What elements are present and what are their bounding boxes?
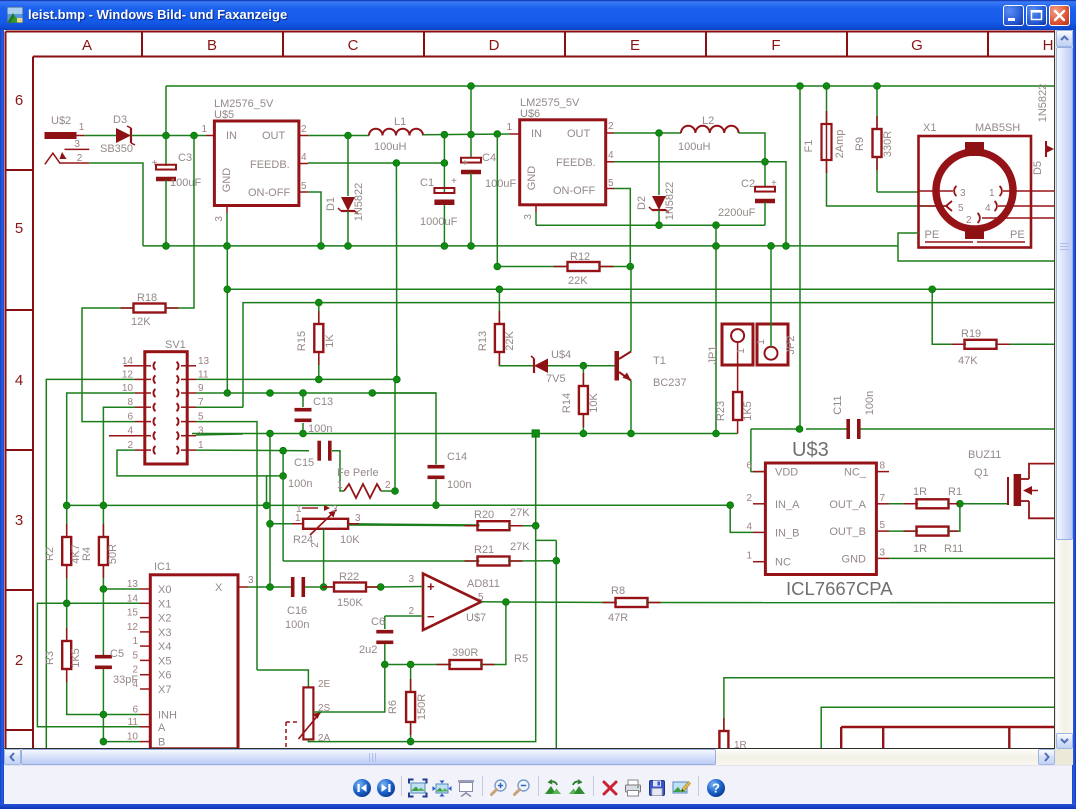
- svg-text:VDD: VDD: [775, 467, 798, 479]
- svg-text:3: 3: [74, 139, 80, 150]
- resistor R20 27K: [348, 507, 539, 530]
- svg-text:C14: C14: [447, 451, 467, 463]
- svg-text:27K: 27K: [510, 507, 530, 519]
- svg-text:R23: R23: [715, 401, 727, 421]
- svg-text:C4: C4: [482, 152, 496, 164]
- svg-text:GND: GND: [526, 166, 538, 191]
- svg-text:15: 15: [127, 608, 139, 619]
- svg-text:5: 5: [958, 203, 964, 214]
- frame column letters: [82, 37, 1053, 54]
- wire SV1 pin5 to potentiometer feed column: [196, 422, 257, 670]
- wire U$3 GND out: [889, 557, 1055, 559]
- svg-text:D1: D1: [325, 197, 337, 211]
- wire IC1 X output to C16: [248, 584, 291, 591]
- svg-text:Q1: Q1: [974, 467, 989, 479]
- svg-text:R5: R5: [514, 653, 528, 665]
- MOSFET Q1 BUZ11: [968, 449, 1055, 518]
- svg-text:BC237: BC237: [653, 377, 687, 389]
- svg-text:27K: 27K: [510, 541, 530, 553]
- svg-text:100uH: 100uH: [374, 141, 406, 153]
- svg-text:AD811: AD811: [467, 578, 500, 590]
- svg-text:X4: X4: [158, 641, 171, 653]
- wire R9 to X1 pin3: [877, 191, 919, 193]
- svg-text:Fe Perle: Fe Perle: [337, 467, 379, 479]
- svg-text:2: 2: [385, 480, 391, 491]
- gnd rail (y=246): [143, 243, 898, 250]
- svg-text:PE: PE: [1010, 229, 1025, 241]
- connector SV1: [122, 339, 210, 464]
- svg-text:H: H: [1043, 37, 1054, 54]
- svg-text:10K: 10K: [340, 534, 360, 546]
- wire IC1 pin13 line: [100, 586, 140, 593]
- wire gnd rail to lower right rail: [898, 246, 1055, 261]
- svg-text:100uF: 100uF: [170, 177, 201, 189]
- svg-text:IC1: IC1: [154, 561, 171, 573]
- resistor R1 1R: [889, 486, 1008, 508]
- svg-text:C16: C16: [287, 605, 307, 617]
- svg-text:GND: GND: [842, 553, 867, 565]
- svg-text:OUT: OUT: [567, 128, 591, 140]
- svg-text:R12: R12: [570, 251, 590, 263]
- wire pin2-line drop to bus: [266, 476, 268, 506]
- svg-text:R3: R3: [44, 651, 56, 665]
- svg-text:JP2: JP2: [785, 336, 797, 355]
- wire SV1 pin8 to R4 column: [100, 407, 135, 538]
- frame row ticks: [6, 170, 34, 730]
- svg-text:1000uF: 1000uF: [420, 216, 458, 228]
- svg-text:1: 1: [337, 480, 343, 491]
- inductor L1 100uH: [369, 116, 423, 153]
- opamp U$7 AD811: [381, 574, 500, 631]
- svg-text:3: 3: [248, 575, 254, 586]
- svg-text:2: 2: [608, 121, 614, 132]
- resistor R3 1K5: [44, 603, 140, 718]
- svg-text:7: 7: [880, 493, 886, 504]
- svg-text:C6: C6: [371, 616, 385, 628]
- svg-text:1: 1: [506, 122, 512, 133]
- svg-text:4: 4: [608, 150, 614, 161]
- svg-text:R22: R22: [339, 571, 359, 583]
- column x=556 with jog: [536, 540, 557, 749]
- bus A (y=289): [224, 246, 1055, 397]
- svg-text:B: B: [158, 737, 165, 749]
- svg-text:2: 2: [77, 153, 83, 164]
- capacitor C4 100uF: [461, 135, 516, 246]
- svg-text:R9: R9: [854, 137, 866, 151]
- capacitor C13 100n: [295, 393, 334, 435]
- resistor R13 22K: [477, 289, 533, 365]
- resistor R21 27K: [283, 541, 560, 566]
- svg-text:A: A: [158, 722, 166, 734]
- frame column ticks: [142, 32, 988, 57]
- svg-text:7V5: 7V5: [546, 373, 566, 385]
- wire SV1 pin3 to gnd rail: [196, 434, 243, 435]
- inductor L2 100uH: [678, 115, 739, 153]
- wire PE to gnd rail: [898, 233, 919, 246]
- svg-text:A: A: [82, 37, 92, 54]
- regulator U$6 LM2575_5V: [506, 97, 614, 220]
- svg-text:5: 5: [301, 181, 307, 192]
- svg-text:C: C: [348, 37, 359, 54]
- svg-text:100uF: 100uF: [485, 178, 516, 190]
- svg-text:R15: R15: [296, 331, 308, 351]
- bottom-right wire y=677.7 with R7: [719, 678, 1055, 753]
- connector U$2 power jack: [45, 115, 90, 164]
- svg-text:U$5: U$5: [214, 109, 234, 121]
- svg-text:1N5822: 1N5822: [664, 182, 676, 221]
- svg-text:R18: R18: [137, 292, 157, 304]
- svg-text:X1: X1: [158, 598, 171, 610]
- svg-text:47K: 47K: [958, 355, 978, 367]
- resistor R5 390R with feedback: [385, 602, 528, 669]
- svg-text:4: 4: [985, 203, 991, 214]
- resistor R23 1K5: [715, 392, 754, 434]
- svg-text:1R: 1R: [913, 486, 927, 498]
- svg-text:OUT_A: OUT_A: [829, 499, 866, 511]
- svg-text:5: 5: [132, 650, 138, 661]
- resistor R2 4K7: [44, 537, 82, 603]
- wire SV1 pin11 line: [196, 376, 400, 383]
- svg-text:100n: 100n: [447, 479, 471, 491]
- svg-text:FEEDB.: FEEDB.: [556, 157, 596, 169]
- jumper JP1: [707, 324, 753, 392]
- wire SV1 pin10 to R2 column: [63, 393, 135, 538]
- zener diode U$4 7V5: [531, 349, 587, 385]
- svg-text:1: 1: [79, 122, 85, 133]
- svg-text:5: 5: [880, 520, 886, 531]
- svg-text:13: 13: [198, 356, 210, 367]
- svg-text:47R: 47R: [608, 612, 628, 624]
- svg-text:2: 2: [408, 606, 414, 617]
- svg-text:330R: 330R: [882, 131, 894, 157]
- svg-text:33pF: 33pF: [113, 674, 138, 686]
- svg-text:U$2: U$2: [51, 115, 71, 127]
- svg-text:SB350: SB350: [100, 143, 133, 155]
- wire top rail corner to D3 node: [165, 86, 167, 136]
- svg-text:2: 2: [966, 215, 972, 226]
- svg-text:1: 1: [132, 636, 138, 647]
- svg-text:10K: 10K: [588, 393, 600, 413]
- bus B (y=302.6): [243, 299, 1055, 407]
- wire L1 to U$6 IN: [423, 131, 510, 139]
- diode D2 1N5822 (zener): [636, 133, 676, 225]
- svg-text:IN: IN: [226, 130, 237, 142]
- svg-text:100n: 100n: [308, 423, 332, 435]
- svg-text:50R: 50R: [107, 544, 119, 564]
- svg-text:IN_A: IN_A: [775, 499, 800, 511]
- svg-text:100uH: 100uH: [678, 141, 710, 153]
- ferrite bead Fe Perle: [337, 379, 398, 498]
- svg-text:C15: C15: [294, 457, 314, 469]
- jumper JP2: [756, 246, 797, 365]
- svg-text:5: 5: [15, 220, 23, 237]
- svg-text:X6: X6: [158, 670, 171, 682]
- svg-text:G: G: [911, 37, 923, 54]
- svg-text:4: 4: [301, 152, 307, 163]
- svg-text:R24: R24: [293, 534, 313, 546]
- svg-text:12K: 12K: [131, 316, 151, 328]
- svg-text:R13: R13: [477, 331, 489, 351]
- resistor R22 150K: [324, 571, 385, 609]
- svg-text:X: X: [215, 582, 223, 594]
- X1 pin1/pin2 stubs to edge: [1031, 191, 1055, 218]
- gnd rail middle (y=433.5): [192, 430, 738, 437]
- svg-text:C11: C11: [832, 395, 844, 414]
- svg-text:1K5: 1K5: [742, 401, 754, 421]
- svg-text:6: 6: [746, 461, 752, 472]
- svg-text:2: 2: [301, 124, 307, 135]
- svg-text:R6: R6: [387, 700, 399, 714]
- wire SV1 pin2 routing: [117, 450, 287, 479]
- svg-text:U$3: U$3: [792, 439, 829, 461]
- svg-text:R2: R2: [44, 547, 56, 561]
- svg-text:100n: 100n: [288, 478, 312, 490]
- svg-text:+: +: [152, 158, 158, 169]
- top +in rail: [166, 83, 1055, 90]
- capacitor C6 2u2: [359, 616, 393, 668]
- multiplexer IC1: [127, 561, 254, 749]
- svg-text:BUZ11: BUZ11: [968, 449, 1001, 461]
- diode D1 1N5822 (zener): [325, 136, 365, 246]
- resistor R19 47K: [932, 289, 1055, 367]
- svg-text:2E: 2E: [318, 679, 331, 690]
- svg-text:SV1: SV1: [165, 339, 186, 351]
- diode D3 SB350: [84, 114, 135, 155]
- svg-text:150K: 150K: [337, 597, 363, 609]
- svg-text:D3: D3: [113, 114, 127, 126]
- svg-text:1R: 1R: [913, 543, 927, 555]
- wire U$6 pin5 to R12/T1 node: [614, 189, 630, 267]
- U$6 local gnd rail: [536, 222, 765, 229]
- svg-text:FEEDB.: FEEDB.: [250, 159, 290, 171]
- svg-text:R20: R20: [474, 509, 494, 521]
- svg-text:2u2: 2u2: [359, 644, 377, 656]
- wire column SV1 pin3 branch to R24 and X line: [267, 430, 304, 587]
- svg-text:D5: D5: [1032, 161, 1044, 175]
- svg-text:R4: R4: [81, 547, 93, 561]
- resistor R14 10K: [561, 366, 600, 434]
- svg-text:R14: R14: [561, 393, 573, 413]
- svg-text:X0: X0: [158, 584, 171, 596]
- svg-text:100n: 100n: [285, 619, 309, 631]
- connector X1 MAB5SH (DIN socket): [919, 122, 1056, 248]
- svg-text:C5: C5: [110, 648, 124, 660]
- svg-text:1N5822: 1N5822: [1037, 84, 1049, 123]
- regulator U$5 LM2576_5V: [201, 98, 308, 222]
- svg-text:L1: L1: [394, 116, 406, 128]
- frame row numbers: [15, 92, 23, 669]
- wire local rail to main gnd (x=716): [715, 225, 717, 434]
- svg-text:4: 4: [746, 521, 752, 532]
- svg-text:OUT: OUT: [262, 130, 286, 142]
- gnd column x=536 (square node): [535, 434, 537, 526]
- svg-text:?: ?: [712, 781, 720, 796]
- svg-text:+: +: [771, 178, 777, 189]
- svg-text:X2: X2: [158, 613, 171, 625]
- bottom-right wire y=707.3: [821, 707, 1055, 749]
- svg-text:X7: X7: [158, 684, 171, 696]
- svg-text:C1: C1: [420, 177, 434, 189]
- diode D5 1N5822 (cut at right edge): [1032, 84, 1054, 175]
- svg-text:C3: C3: [178, 152, 192, 164]
- wire FEEDB U$5 to output and SV1 feed column: [308, 160, 444, 380]
- svg-text:+: +: [427, 579, 435, 594]
- wire SV1 pin12 down left column: [46, 379, 135, 749]
- capacitor C15 100n: [288, 441, 344, 491]
- svg-text:2S: 2S: [318, 703, 331, 714]
- svg-text:MAB5SH: MAB5SH: [975, 122, 1020, 134]
- resistor R18 12K: [82, 136, 194, 422]
- svg-text:JP1: JP1: [707, 346, 719, 365]
- svg-text:3: 3: [408, 574, 414, 585]
- svg-text:22K: 22K: [568, 275, 588, 287]
- driver U$3 ICL7667CPA: [746, 439, 893, 599]
- svg-text:1: 1: [201, 124, 207, 135]
- wire U$5 pin3 to gnd: [226, 213, 228, 246]
- svg-text:R1: R1: [948, 486, 962, 498]
- svg-text:12: 12: [127, 622, 139, 633]
- svg-text:1: 1: [746, 551, 752, 562]
- resistor R11 1R: [889, 504, 963, 555]
- svg-text:F1: F1: [803, 140, 815, 153]
- svg-text:6: 6: [127, 412, 133, 423]
- svg-text:22K: 22K: [504, 331, 516, 351]
- svg-text:1N5822: 1N5822: [353, 183, 365, 222]
- svg-text:F: F: [771, 37, 780, 54]
- svg-text:U$6: U$6: [520, 108, 540, 120]
- wire IC1 pin14 line to R2: [37, 600, 140, 727]
- svg-text:OUT_B: OUT_B: [829, 526, 866, 538]
- resistor R4 50R: [81, 537, 119, 589]
- potentiometer R24 10K: [293, 504, 479, 587]
- svg-text:3: 3: [332, 504, 338, 515]
- svg-text:3: 3: [214, 216, 225, 222]
- svg-text:R19: R19: [961, 328, 981, 340]
- svg-text:X1: X1: [923, 122, 936, 134]
- svg-text:INH: INH: [158, 710, 177, 722]
- wire L2 out / C2 node: [739, 133, 769, 186]
- svg-text:+: +: [451, 176, 457, 187]
- svg-text:6: 6: [15, 92, 23, 109]
- svg-text:1: 1: [296, 504, 302, 515]
- svg-text:ON-OFF: ON-OFF: [248, 187, 290, 199]
- svg-text:+: +: [462, 158, 468, 169]
- svg-text:T1: T1: [653, 355, 666, 367]
- svg-text:−: −: [427, 609, 435, 624]
- wire C4 node to top rail: [470, 86, 472, 135]
- capacitor C2 2200uF: [718, 178, 777, 225]
- resistor R12 22K: [494, 134, 634, 287]
- wire U$6 FEEDB: [614, 162, 786, 246]
- wire U$5 pin5 ON-OFF to gnd: [308, 192, 321, 246]
- resistor R9 330R: [854, 86, 894, 192]
- capacitor C5 33pF: [95, 589, 138, 745]
- svg-text:IN: IN: [531, 128, 542, 140]
- wire U$5 OUT to L1: [308, 132, 369, 139]
- svg-text:1K: 1K: [324, 334, 336, 348]
- svg-text:2200uF: 2200uF: [718, 207, 756, 219]
- svg-text:C13: C13: [313, 396, 333, 408]
- capacitor C11 100n: [832, 391, 876, 439]
- wire SV1 pin14 stub: [124, 365, 135, 367]
- svg-text:ON-OFF: ON-OFF: [553, 185, 595, 197]
- svg-text:B: B: [207, 37, 217, 54]
- svg-text:3: 3: [355, 513, 361, 524]
- svg-text:GND: GND: [221, 168, 233, 193]
- svg-text:390R: 390R: [452, 647, 478, 659]
- capacitor C1 1000uF: [420, 135, 458, 246]
- VDD wire with C11 (y=429): [751, 86, 1055, 472]
- svg-text:ICL7667CPA: ICL7667CPA: [786, 578, 893, 599]
- capacitor C16 100n: [285, 577, 327, 631]
- svg-text:3: 3: [960, 188, 966, 199]
- svg-text:4: 4: [15, 372, 23, 389]
- svg-text:E: E: [630, 37, 640, 54]
- svg-text:PE: PE: [925, 229, 940, 241]
- svg-text:2A: 2A: [318, 733, 331, 744]
- svg-text:L2: L2: [702, 115, 714, 127]
- svg-text:D: D: [489, 37, 500, 54]
- svg-text:R11: R11: [944, 543, 963, 555]
- svg-text:IN_B: IN_B: [775, 527, 799, 539]
- wire pin1-line vertical link: [282, 451, 284, 561]
- svg-text:150R: 150R: [416, 694, 428, 720]
- svg-text:C2: C2: [741, 178, 755, 190]
- potentiometer 2E/2S/2A: [257, 526, 536, 754]
- svg-text:100n: 100n: [864, 391, 876, 415]
- svg-text:1: 1: [756, 339, 767, 345]
- resistor R6 150R: [387, 665, 428, 745]
- bottom-right red box (cut): [841, 727, 1055, 749]
- wire IC1 pinB line: [103, 741, 140, 743]
- resistor R15 1K: [296, 303, 336, 380]
- svg-text:2Amp: 2Amp: [834, 130, 846, 159]
- capacitor C14 100n: [372, 393, 471, 509]
- svg-text:8: 8: [880, 461, 886, 472]
- svg-text:U$4: U$4: [551, 349, 571, 361]
- wire SV1 pin9 line: [196, 390, 436, 397]
- svg-text:X3: X3: [158, 627, 171, 639]
- resistor pin stubs (red): [67, 111, 1010, 753]
- svg-text:3: 3: [880, 547, 886, 558]
- transistor T1 BC237: [583, 267, 686, 434]
- wire U$2 pin2 to gnd rail: [89, 163, 143, 246]
- svg-text:NC_: NC_: [844, 467, 867, 479]
- long bus (y=505) to U$3 IN_A: [67, 502, 734, 509]
- svg-text:U$7: U$7: [466, 612, 486, 624]
- resistor R8 47R: [608, 585, 1055, 624]
- svg-text:3: 3: [523, 214, 534, 220]
- capacitor C3 100uF: [152, 136, 202, 246]
- svg-text:R21: R21: [474, 544, 494, 556]
- wire SV1 pin4 stub: [109, 435, 135, 437]
- wire bus jog to IN_B: [730, 505, 753, 532]
- svg-text:2: 2: [15, 652, 23, 669]
- wire SV1 pin7 to bus B: [196, 406, 243, 408]
- wire D3 to U$5 IN: [131, 132, 206, 139]
- svg-text:R8: R8: [611, 585, 625, 597]
- svg-text:1: 1: [736, 348, 747, 354]
- svg-text:3: 3: [15, 512, 23, 529]
- wire U$6 OUT to L2: [614, 130, 681, 137]
- svg-text:1: 1: [989, 188, 995, 199]
- svg-text:5: 5: [608, 178, 614, 189]
- fuse F1 2Amp: [803, 86, 948, 206]
- wire U$6 pin3 to local rail: [535, 212, 537, 225]
- opamp output to R8: [481, 599, 617, 606]
- svg-text:NC: NC: [775, 557, 791, 569]
- wire SV1 pin1 line: [196, 447, 309, 454]
